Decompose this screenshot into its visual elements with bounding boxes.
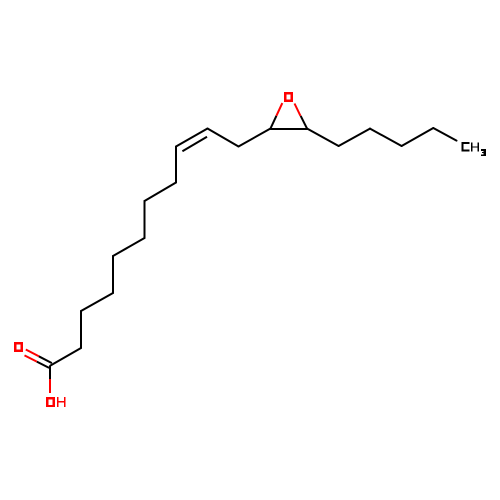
bond C8-C9 — [175, 147, 177, 183]
epoxide bond C12-O2 black half — [271, 116, 277, 129]
atom label CH3 hydrogen — [471, 142, 479, 151]
epoxide bond C13-O2 black half — [301, 116, 307, 129]
bond C14-C15 — [339, 129, 370, 146]
epoxide bond C12-O2 red half — [276, 103, 282, 116]
epoxide bond C12-C13 — [271, 128, 308, 130]
bond C3-C4 — [81, 293, 113, 311]
bond C2-C3 — [80, 311, 82, 348]
atom label O2 (epoxide oxygen) — [284, 92, 293, 102]
bond C1-OH black half — [49, 366, 51, 380]
atom label CH3 subscript 3 — [481, 149, 486, 156]
bond C10-C11 — [208, 129, 239, 147]
carbonyl double bond C1=O1 upper line black half — [39, 356, 52, 363]
bond C6-C7 — [144, 201, 146, 238]
bond C7-C8 — [145, 183, 177, 202]
epoxide bond C13-O2 red half — [295, 104, 301, 116]
atom label O1 (carbonyl oxygen) — [14, 342, 23, 352]
bond C13-C14 — [307, 129, 339, 147]
carbonyl double bond C1=O1 lower line black half — [37, 362, 49, 368]
bond C1-C2 — [51, 348, 82, 366]
bond C4-C5 — [112, 256, 114, 293]
bond C1-OH red half — [49, 379, 51, 393]
bond C17-C18(CH3) — [433, 128, 456, 141]
bond C15-C16 — [370, 129, 402, 146]
atom label OH oxygen — [46, 397, 55, 407]
bond C5-C6 — [113, 238, 145, 256]
atom label OH hydrogen — [57, 397, 65, 407]
bond C16-C17 — [402, 128, 434, 146]
double bond C9=C10 inner line — [182, 137, 207, 151]
double bond C9=C10 main line — [176, 129, 208, 147]
carbonyl double bond C1=O1 lower line red half — [25, 355, 37, 361]
atom label CH3 carbon — [462, 142, 470, 152]
bond C11-C12 — [239, 129, 271, 147]
carbonyl double bond C1=O1 upper line red half — [26, 350, 39, 357]
